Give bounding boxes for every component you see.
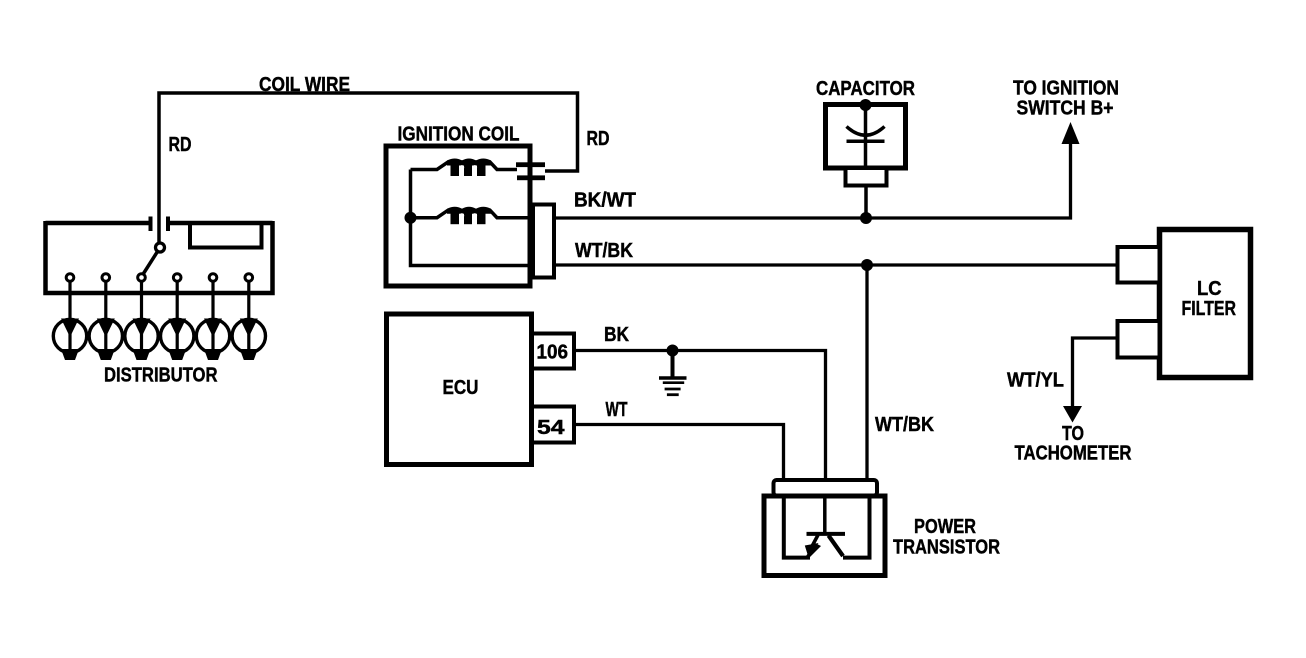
ECU pin 54 connector: [532, 407, 574, 443]
spark plug terminal 3: [125, 319, 158, 361]
svg-text:ECU: ECU: [443, 377, 479, 399]
svg-text:DISTRIBUTOR: DISTRIBUTOR: [104, 365, 218, 387]
LC filter lower connector: [1118, 321, 1160, 358]
coil tower capacitor bars: [516, 162, 545, 167]
node junction dot capacitor to BK/WT: [860, 212, 872, 224]
power transistor outer box: [764, 496, 885, 576]
spark plug terminal 6: [232, 319, 265, 361]
node junction dot WT/BK to power transistor: [861, 259, 873, 271]
svg-text:WT/YL: WT/YL: [1007, 370, 1064, 392]
secondary winding inductor (lower): [411, 207, 534, 225]
capacitor C1 box: [826, 105, 906, 169]
spark plug terminal 1: [53, 319, 86, 361]
svg-text:FILTER: FILTER: [1182, 298, 1237, 320]
primary winding inductor (upper): [411, 159, 518, 177]
spark plug leads: [70, 282, 249, 320]
svg-text:SWITCH B+: SWITCH B+: [1017, 98, 1114, 120]
distributor terminals: [66, 274, 252, 282]
spark plug terminal 2: [89, 319, 122, 361]
node junction dot BK to ground: [667, 345, 679, 357]
svg-text:WT: WT: [606, 399, 628, 421]
wire BK/WT bus: [554, 140, 1071, 218]
svg-text:TRANSISTOR: TRANSISTOR: [893, 537, 1000, 559]
distributor cap terminal ticks: [151, 217, 169, 232]
svg-text:RD: RD: [587, 128, 610, 150]
capacitor curved plate: [847, 127, 885, 136]
capacitor connector below: [846, 168, 887, 186]
wire coil wire (RD) from distributor to ignition coil tower: [159, 93, 578, 243]
spark plug terminal 4: [161, 319, 194, 361]
power transistor inner enclosure: [784, 497, 810, 558]
spark plug terminals (6 circles with arrows): [53, 319, 265, 361]
ignition coil output connector: [533, 205, 554, 278]
svg-text:BK/WT: BK/WT: [574, 190, 636, 212]
svg-text:54: 54: [537, 417, 566, 439]
ECU box: [387, 314, 532, 465]
wire BK from pin 106 to power transistor: [574, 351, 826, 481]
LC filter box: [1160, 230, 1251, 378]
spark plug terminal 5: [196, 319, 229, 361]
ground: [659, 351, 687, 395]
svg-text:TACHOMETER: TACHOMETER: [1015, 443, 1132, 465]
svg-text:POWER: POWER: [914, 516, 976, 538]
wire capacitor to BK/WT bus: [864, 186, 868, 219]
wire WT/BK bus: [554, 263, 1118, 266]
capacitor straight plate: [847, 139, 885, 143]
svg-text:BK: BK: [604, 324, 629, 346]
ECU pin 106 connector: [532, 334, 574, 369]
wire WT from pin 54 to power transistor: [574, 425, 784, 481]
svg-text:106: 106: [537, 342, 569, 364]
svg-text:IGNITION COIL: IGNITION COIL: [398, 124, 520, 146]
distributor inner rectangle: [190, 224, 262, 248]
svg-text:WT/BK: WT/BK: [575, 240, 633, 262]
svg-text:CAPACITOR: CAPACITOR: [816, 78, 915, 100]
svg-text:RD: RD: [169, 134, 192, 156]
transistor Q1 symbol: [805, 497, 845, 558]
rotor pivot circle: [156, 243, 165, 252]
arrow to ignition switch: [1062, 122, 1080, 144]
svg-text:WT/BK: WT/BK: [875, 414, 934, 436]
wire WT/BK vertical to power transistor: [865, 265, 868, 480]
rotor arm: [144, 252, 158, 274]
ignition coil box: [386, 146, 530, 286]
distributor box: [46, 221, 273, 293]
wire WT/YL to tachometer: [1073, 338, 1118, 410]
svg-text:COIL WIRE: COIL WIRE: [259, 74, 350, 96]
svg-text:TO IGNITION: TO IGNITION: [1013, 78, 1119, 100]
node junction dot on winding: [405, 212, 417, 224]
svg-text:LC: LC: [1197, 278, 1222, 300]
wire left vertical joining windings: [411, 170, 534, 266]
capacitor top node dot: [860, 99, 872, 111]
arrow to tachometer: [1063, 406, 1082, 423]
LC filter upper connector: [1118, 247, 1160, 283]
capacitor internal lead: [864, 105, 868, 168]
power transistor lid connector: [774, 480, 878, 496]
